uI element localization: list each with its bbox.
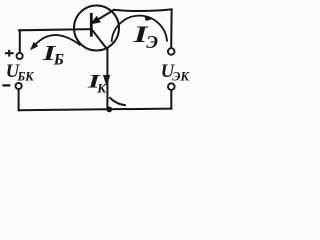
current arrow I_E arc	[112, 16, 168, 42]
wire right vertical upper	[170, 9, 172, 48]
current arrow I_B arc	[36, 35, 81, 45]
svg-text:Б: Б	[53, 51, 64, 68]
plus sign	[5, 50, 14, 57]
transistor VT1 emitter lead diagonal	[98, 10, 113, 19]
wire right vertical lower	[170, 90, 172, 109]
junction corner arc	[109, 97, 125, 105]
current arrow I_E head	[144, 16, 154, 21]
wire collector vertical	[106, 49, 108, 109]
current arrow I_B head	[30, 42, 38, 50]
terminal - of U_BK	[16, 83, 22, 89]
junction dot	[106, 107, 112, 113]
terminal upper of U_EK	[168, 48, 175, 55]
wire emitter top horizontal	[114, 9, 172, 11]
minus sign	[2, 84, 10, 86]
transistor VT1 circle	[74, 6, 119, 51]
wire base top-left vertical	[19, 30, 21, 52]
wire bottom horizontal	[19, 109, 172, 111]
wire bottom-left vertical	[18, 89, 20, 110]
transistor VT1 base bar	[90, 14, 93, 35]
current arrow I_K head (down)	[103, 75, 110, 86]
transistor VT1 emitter arrowhead (PNP, into base bar)	[90, 16, 101, 25]
svg-text:ЭК: ЭК	[172, 70, 190, 84]
svg-text:БК: БК	[17, 70, 35, 84]
transistor VT1 collector lead diagonal	[92, 30, 107, 50]
svg-text:Э: Э	[146, 32, 158, 52]
terminal lower of U_EK	[168, 83, 175, 90]
wire base horizontal	[19, 29, 91, 30]
terminal + of U_BK	[17, 53, 23, 59]
svg-text:К: К	[96, 80, 107, 95]
